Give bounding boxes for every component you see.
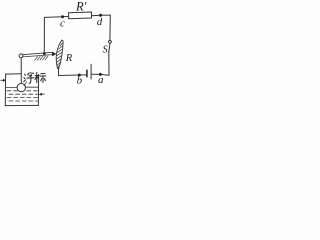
tank bottom [5,104,38,106]
wiper arrow head on lever [52,52,57,57]
hinge circle at left end of lever [19,54,23,58]
switch S blade [109,43,110,52]
float rod [20,58,22,84]
node c [61,15,64,18]
tank right wall [37,75,39,106]
tank left wall [4,74,6,106]
rheostat R arc element (hatched crescent) [56,40,63,69]
wire: right vertical below switch to bottom-right corner [108,52,110,75]
resistor R' box [69,12,92,19]
battery short plate (negative) [86,70,88,76]
wire: top rail right segment (box to top-right corner) [92,14,111,17]
battery long plate (positive) [90,64,92,79]
svg-text:R′: R′ [75,0,87,14]
float (circle on water) [17,83,25,91]
wire: top rail left segment (corner to R' box) [44,16,68,17]
inlet arrow at right wall [41,93,44,95]
svg-text:a: a [98,74,104,86]
water surface line [6,86,37,88]
wire: top-left vertical from corner down to lever pivot [43,17,45,53]
svg-text:S: S [103,44,108,55]
inlet arrow at left wall [1,79,3,81]
wire: bottom rail left segment (battery to rheostat foot) [59,74,87,77]
leader line from label to float [24,82,27,86]
tank top rim [6,73,21,75]
wire: rheostat bottom end down to bottom rail [58,69,60,76]
wire: bottom rail right segment (corner to battery long plate) [92,73,109,76]
lever arm (double line) [23,52,53,54]
svg-text:d: d [97,16,103,28]
svg-text:R: R [65,53,73,64]
water shading dashes [7,91,37,101]
svg-text:c: c [60,18,65,30]
wire: right vertical down to switch [109,15,111,40]
label 浮 (drawn strokes) [24,73,34,83]
rheostat arc hatching [56,43,63,69]
label 标 (drawn strokes) [35,72,46,82]
lever pivot junction dot [43,52,46,55]
switch S contact circle [109,40,112,43]
fixed support hatching under pivot [35,56,48,60]
svg-text:b: b [77,75,83,87]
node b [78,74,81,77]
node d [99,14,102,17]
node a [99,73,102,76]
